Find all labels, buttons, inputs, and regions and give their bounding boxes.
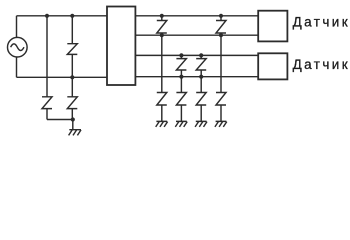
sensor box 1	[258, 11, 287, 42]
node junction rail4 colC	[199, 75, 203, 79]
node junction rail1 colA	[160, 14, 164, 18]
node junction rail1 col1	[45, 14, 49, 18]
wire AC source top lead	[16, 16, 18, 38]
wire colC upper lead	[200, 55, 202, 58]
svg-text:Датчик: Датчик	[293, 57, 350, 72]
ground (colC)	[195, 121, 207, 127]
arrester Z11 (colD to earth)	[216, 93, 226, 106]
node junction earth bus	[71, 117, 75, 121]
arrester Z7 (colA to earth)	[157, 93, 167, 106]
sensor box 2	[258, 53, 287, 79]
wire ground drop left	[72, 120, 74, 130]
wire colC lead to rail4	[200, 70, 202, 77]
arrester Z4 (colC between rail3 and rail4)	[196, 59, 206, 70]
wire rail4 right section	[135, 76, 258, 78]
wire colA to ground	[161, 105, 163, 121]
wire colC down	[200, 77, 202, 93]
node junction rail4 colB	[179, 75, 183, 79]
wire column2 upper lead	[71, 16, 73, 44]
wire colB down	[180, 77, 182, 93]
arrester Z5 (line to earth, left)	[42, 97, 52, 109]
wire column1 vertical	[46, 16, 48, 97]
AC source	[7, 37, 27, 57]
node junction rail3 colB	[179, 53, 183, 57]
wire bottom rail left section	[17, 76, 108, 78]
wire column2 to bottom rail	[71, 54, 73, 77]
arrester Z1 (line to neutral, left)	[67, 44, 77, 55]
arrester Z2 (colA between rail1 and rail2)	[157, 21, 167, 34]
wire colD down through rails	[220, 35, 222, 92]
wire rail2	[135, 34, 258, 36]
ground (colD)	[215, 121, 227, 127]
wire AC source bottom lead	[16, 57, 18, 77]
wire column2 below Z6	[71, 109, 73, 120]
node junction rail1 colD	[219, 14, 223, 18]
node junction rail2 colD	[219, 33, 223, 37]
wire rail1 right section	[135, 15, 258, 17]
node junction rail3 colC	[199, 53, 203, 57]
wire colC to ground	[200, 105, 202, 121]
wire column1 below Z5	[46, 109, 48, 120]
ground (left)	[69, 130, 81, 136]
wire colB lead to rail4	[180, 70, 182, 77]
wire colA upper lead	[161, 16, 163, 21]
wire rail3	[135, 54, 258, 56]
wire colD upper lead	[220, 16, 222, 21]
arrester Z9 (colC to earth)	[196, 93, 206, 106]
ground (colB)	[175, 121, 187, 127]
wire colB to ground	[180, 105, 182, 121]
wire column2 below rail	[71, 77, 73, 97]
node junction rail2 colA	[160, 33, 164, 37]
arrester Z6 (neutral to earth, left)	[67, 97, 77, 109]
barrier box U1	[107, 7, 135, 86]
arrester Z3 (colB between rail3 and rail4)	[176, 59, 186, 70]
wire colD lead to rail2	[220, 33, 222, 35]
wire colA lead to rail2	[161, 33, 163, 35]
wire top rail left section	[17, 15, 108, 17]
wire colD to ground	[220, 105, 222, 121]
svg-text:Датчик: Датчик	[293, 14, 350, 29]
arrester Z8 (colB to earth)	[176, 93, 186, 106]
arrester Z10 (colD between rail1 and rail2)	[216, 21, 226, 34]
ground (colA)	[156, 121, 168, 127]
wire earth bus left	[47, 119, 73, 121]
wire colB upper lead	[180, 55, 182, 58]
node junction rail4left col2	[70, 75, 74, 79]
node junction rail1 col2	[70, 14, 74, 18]
wire colA down through rails	[161, 35, 163, 92]
